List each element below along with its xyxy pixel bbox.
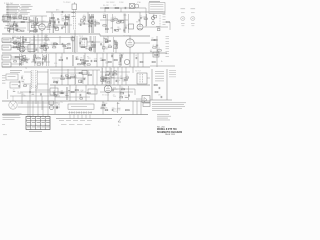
node label-18-17: [19, 17, 23, 19]
node V5-label: [102, 94, 109, 96]
wire: [10, 95, 60, 97]
node value-21-82: [21, 80, 25, 82]
coil Lz30263: [32, 60, 34, 63]
wire: [112, 88, 135, 90]
node VOLUME-label: [54, 63, 57, 65]
wire: [145, 8, 147, 27]
svg-text:47: 47: [88, 46, 90, 48]
wire: [92, 70, 94, 85]
capacitor C23: [160, 96, 163, 98]
node label-65-20: [66, 19, 71, 21]
wire: [4, 27, 26, 29]
svg-text:100K: 100K: [94, 59, 99, 61]
wire: [73, 36, 75, 52]
capacitor Cz9: [53, 21, 56, 23]
svg-text:C12: C12: [124, 95, 127, 97]
capacitor Cz3: [8, 30, 11, 32]
wire: [102, 101, 104, 115]
capacitor Cz20: [113, 29, 116, 31]
node value-118-110: [118, 108, 122, 110]
box T2: [80, 38, 87, 47]
svg-text:R7: R7: [111, 76, 113, 78]
coil Lz51347: [89, 46, 92, 49]
node value-75-59: [75, 57, 78, 59]
node value-40-46: [40, 44, 43, 46]
box part-31-26: [31, 25, 34, 28]
capacitor Cz10: [57, 21, 60, 23]
resistor Rz35: [14, 42, 17, 43]
node V1-label: [39, 21, 46, 23]
node value-56-106: [56, 105, 60, 107]
node label-44-37: [45, 37, 47, 39]
capacitor C13: [90, 60, 93, 62]
node label-87-58: [88, 58, 92, 60]
wire: [113, 37, 115, 52]
svg-text:.001: .001: [52, 45, 55, 47]
node label-68-45: [69, 44, 72, 46]
wire: [45, 26, 56, 28]
coil Lz59425: [100, 59, 103, 62]
svg-text:R7: R7: [15, 14, 17, 16]
resistor Rz40: [40, 47, 44, 48]
box M11: [49, 101, 54, 104]
node label-15-16: [16, 15, 18, 17]
resistor Rz30: [43, 56, 46, 57]
node T2-label: [79, 36, 83, 38]
coil Lz815415: [107, 70, 109, 73]
node value-90-18: [90, 16, 93, 18]
wire: [29, 85, 31, 117]
wire: [110, 68, 112, 84]
node value-102-79: [102, 78, 106, 80]
coil Lz26233: [156, 26, 159, 29]
node value-70-39: [70, 37, 73, 39]
node value-53-93: [53, 91, 55, 93]
svg-text:.02: .02: [61, 91, 63, 93]
resistor R3: [51, 17, 54, 18]
node value-123-30: [123, 28, 125, 30]
node value-67-78: [67, 76, 70, 78]
wire: [21, 54, 23, 66]
node value-105-110: [105, 108, 109, 110]
capacitor C5: [61, 11, 64, 13]
wire: [93, 14, 95, 33]
svg-text:T3: T3: [25, 68, 27, 70]
wire: [50, 69, 100, 71]
node AVC-label: [56, 9, 60, 12]
node value-28-22: [28, 20, 31, 22]
svg-text:330: 330: [117, 27, 120, 29]
wire: [150, 65, 175, 67]
wire: [16, 22, 18, 26]
wire: [30, 15, 47, 17]
node note-small: [169, 70, 176, 77]
svg-text:.02: .02: [151, 38, 153, 40]
svg-text:R4 47K: R4 47K: [103, 5, 110, 7]
svg-text:OSC 262KC: OSC 262KC: [106, 2, 116, 4]
resistor Rz20: [111, 20, 114, 21]
node value-16-42: [16, 40, 20, 42]
node value-144-18: [144, 16, 147, 18]
svg-text:CONV: CONV: [119, 2, 125, 4]
resistor R18: [114, 59, 117, 60]
resistor Rz18: [83, 17, 86, 18]
wire: [87, 12, 89, 20]
wire: [18, 106, 60, 108]
resistor R16: [102, 59, 105, 60]
node value-10-28: [10, 27, 13, 29]
svg-text:2.2M: 2.2M: [56, 105, 60, 107]
jack J1: [152, 17, 155, 25]
svg-text:.001: .001: [100, 106, 103, 108]
wire: [11, 63, 24, 65]
resistor Rz46: [68, 47, 71, 48]
svg-text:330: 330: [105, 73, 108, 75]
capacitor Cz55: [112, 89, 115, 91]
resistor Rz86: [107, 82, 110, 83]
node value-66-78: [66, 76, 70, 78]
resistor R15: [107, 40, 110, 41]
node value-25-39: [25, 37, 27, 39]
wire: [21, 36, 23, 52]
wire: [136, 98, 142, 100]
node value-13-61: [13, 59, 15, 61]
node label-122-81: [123, 81, 126, 83]
wire: [94, 36, 96, 52]
node value-100-108: [100, 106, 103, 108]
node parts-list-line5: [6, 10, 27, 13]
wire: [113, 67, 115, 85]
svg-text:.02: .02: [150, 50, 152, 52]
node title-line3: [165, 133, 175, 136]
tube base diagram V8: [191, 9, 196, 27]
node label-74-77: [74, 77, 77, 79]
coil Lz64463: [22, 81, 24, 84]
node value-43-45: [43, 43, 46, 45]
antenna E1: [2, 16, 5, 20]
node value-110-20: [110, 18, 115, 20]
wire: [88, 14, 90, 33]
capacitor Cz7: [61, 27, 64, 29]
capacitor Cz19: [123, 29, 126, 31]
node value-65-96: [65, 94, 68, 96]
wire: [146, 14, 148, 26]
capacitor Cz29: [32, 58, 35, 60]
wire: [11, 47, 20, 49]
node value-112-73: [112, 72, 115, 74]
capacitor Cz34: [79, 42, 82, 44]
node value-88-48: [88, 46, 90, 48]
node value-105-42: [105, 40, 110, 42]
node value-43-49: [43, 47, 46, 49]
svg-text:.02: .02: [152, 45, 154, 47]
resistor Rz54: [78, 64, 81, 65]
node label-31-43: [31, 43, 33, 45]
resistor Rz56: [81, 63, 84, 64]
box M1: [2, 38, 11, 42]
node title-line2: [157, 131, 182, 134]
capacitor C14: [113, 40, 116, 42]
wire: [52, 77, 86, 79]
resistor Rz13: [89, 26, 92, 27]
node label-105-64: [106, 63, 110, 65]
node value-13-43: [13, 41, 15, 43]
svg-text:.05: .05: [29, 90, 31, 92]
coil L5: [67, 42, 70, 45]
svg-text:.05: .05: [12, 89, 14, 91]
wire: [27, 22, 29, 31]
node value-33-59: [33, 57, 37, 59]
wire: [101, 67, 103, 85]
node value-25-60: [25, 58, 28, 60]
wire: [117, 67, 119, 85]
resistor Rz29: [21, 61, 24, 62]
svg-text:120: 120: [25, 61, 28, 63]
capacitor C15: [119, 60, 122, 62]
box M3: [2, 55, 11, 60]
node label-60-103: [60, 102, 63, 104]
svg-text:5%: 5%: [116, 43, 119, 45]
node value-67-47: [67, 46, 69, 48]
resistor Rz5: [17, 30, 21, 31]
node left-col-text: [2, 75, 6, 83]
resistor Rz57: [114, 47, 118, 48]
node value-74-77: [74, 75, 77, 77]
resistor R14: [87, 64, 90, 65]
resistor Rz28: [24, 60, 27, 61]
svg-text:.005: .005: [118, 62, 121, 64]
resistor Rz32: [42, 58, 46, 59]
wire: [20, 36, 22, 52]
svg-text:47: 47: [113, 95, 115, 97]
resistor Rz23: [105, 28, 108, 29]
svg-text:T4 OUT: T4 OUT: [135, 70, 141, 72]
node value-15-26: [15, 24, 18, 26]
wire: [139, 12, 141, 24]
box part-65-18: [66, 17, 69, 19]
node value-18-44: [18, 42, 20, 44]
node label-50-19: [50, 18, 52, 20]
capacitor Cz32: [43, 44, 46, 46]
wire: [93, 36, 95, 52]
node value-22-96: [22, 94, 24, 96]
wire: [121, 67, 123, 85]
node label-106-49: [106, 49, 108, 51]
wire: [129, 36, 131, 39]
node under-labels-1: [59, 119, 92, 122]
capacitor Cz18: [94, 21, 97, 23]
resistor Rz34: [17, 42, 20, 43]
node rect-label2: [55, 107, 60, 109]
svg-text:6X4: 6X4: [55, 103, 58, 105]
svg-text:47: 47: [44, 42, 46, 44]
resistor Rz39: [45, 47, 48, 48]
wire: [9, 23, 11, 33]
node value-61-28: [61, 26, 64, 28]
wire: [37, 71, 48, 73]
svg-text:1K: 1K: [102, 45, 104, 47]
svg-text:5%: 5%: [60, 102, 63, 104]
coil L4: [72, 15, 75, 18]
node value-61-76: [61, 74, 63, 76]
node value-124-81: [124, 79, 128, 81]
node value-100-60: [100, 58, 104, 60]
capacitor C9: [19, 63, 22, 65]
wire: [104, 8, 106, 12]
capacitor Cz44: [39, 93, 42, 95]
node R7-label: [12, 40, 18, 42]
node value-16-38: [16, 36, 18, 38]
wire: [69, 14, 71, 33]
capacitor Cz13: [83, 19, 86, 21]
capacitor Cz30: [11, 37, 14, 39]
tube V2 6BA6: [19, 46, 25, 52]
svg-text:47: 47: [13, 45, 15, 47]
svg-text:.05: .05: [56, 80, 58, 82]
node list-block: [157, 114, 171, 120]
svg-text:150: 150: [61, 17, 64, 19]
svg-text:.01: .01: [13, 59, 15, 61]
box part-55-28: [55, 27, 58, 30]
loop antenna LA1: [3, 15, 12, 22]
wire: [12, 58, 30, 60]
wire: [46, 11, 165, 13]
node value-88-26: [88, 24, 92, 26]
svg-text:.01: .01: [75, 88, 77, 90]
node value-25-63: [25, 61, 28, 63]
node rect-label: [55, 103, 58, 105]
wire: [67, 87, 69, 100]
capacitor Cz36: [75, 58, 78, 60]
wire: [78, 23, 100, 25]
svg-text:T2 IF: T2 IF: [79, 36, 83, 38]
node value-59-93: [59, 91, 62, 93]
node value-105-64: [105, 62, 108, 64]
node label-40-46: [41, 46, 44, 48]
node value-111-56: [111, 54, 114, 56]
resistor R10: [54, 43, 58, 44]
svg-text:47K: 47K: [113, 87, 116, 89]
svg-text:470K: 470K: [80, 90, 83, 92]
node value-58-22: [58, 20, 61, 22]
resistor Rz85: [124, 79, 127, 80]
wire: [147, 77, 150, 79]
coil L3: [72, 11, 75, 14]
svg-text:.01: .01: [62, 44, 64, 46]
node value-122-81: [122, 80, 127, 82]
wire: [67, 14, 69, 33]
node value-102-47: [102, 45, 104, 47]
node value-124-79: [124, 77, 127, 79]
resistor Rz17: [90, 16, 94, 17]
node value-106-49: [106, 47, 109, 49]
node value-17-48: [17, 46, 19, 48]
svg-text:150: 150: [111, 54, 114, 56]
node Bplus-label: [161, 61, 163, 63]
node value-21-60: [21, 58, 23, 60]
wire: [33, 34, 35, 53]
wire: [166, 69, 168, 100]
node pin-row-1: [69, 112, 92, 113]
node value-153-16: [153, 14, 156, 16]
svg-text:120: 120: [119, 95, 122, 97]
coil Lz1036: [29, 21, 32, 24]
node value-116-22: [116, 20, 119, 22]
svg-text:.02: .02: [34, 60, 36, 62]
node value-118-64: [118, 62, 121, 64]
coil Lz932: [31, 19, 33, 22]
wire: [136, 7, 146, 9]
wire: [89, 14, 91, 33]
node label-80-92: [81, 91, 83, 93]
svg-text:220K: 220K: [80, 79, 85, 81]
wire: [120, 8, 122, 12]
box part-64-24: [65, 23, 68, 25]
resistor Rz62: [158, 50, 162, 51]
node value-105-81: [105, 79, 107, 81]
wire: [84, 53, 86, 67]
resistor Rz19: [119, 21, 122, 22]
capacitor Cz16: [94, 24, 97, 26]
resistor Rz80: [126, 77, 129, 78]
node value-151-40: [151, 38, 153, 40]
wire: [53, 14, 55, 33]
resistor R23: [71, 91, 74, 92]
node value-157-29: [157, 27, 161, 29]
resistor Rz41: [41, 45, 45, 46]
svg-text:V4: V4: [136, 21, 138, 23]
svg-text:.001: .001: [108, 44, 111, 46]
node value-121-89: [121, 87, 124, 89]
wire: [107, 93, 109, 101]
node value-80-59: [80, 58, 84, 60]
svg-text:120: 120: [112, 108, 115, 110]
box powercord: [68, 104, 94, 109]
capacitor C16: [156, 45, 158, 46]
capacitor C2: [16, 25, 19, 27]
node value-125-77: [125, 75, 128, 77]
box part-23-18: [24, 17, 27, 20]
node value-45-47: [45, 45, 47, 47]
node parts-list-line6: [6, 11, 30, 14]
node value-16-30: [16, 28, 19, 30]
box IF-T5: [129, 24, 134, 29]
wire: [12, 46, 28, 48]
svg-text:.01: .01: [21, 75, 23, 77]
wire: [119, 85, 121, 101]
resistor Rz33: [16, 46, 19, 47]
resistor R6: [166, 21, 169, 22]
node value-64-48: [64, 46, 67, 48]
node value-13-47: [13, 45, 15, 47]
resistor R5: [115, 7, 119, 8]
node value-125-27: [125, 25, 128, 27]
node value-123-15: [123, 13, 126, 15]
wire: [127, 86, 129, 100]
wire: [22, 36, 24, 52]
wire: [143, 26, 150, 28]
box part-7-29: [7, 29, 9, 31]
wire: [83, 55, 85, 66]
wire: [74, 74, 76, 84]
capacitor Cz39: [116, 44, 119, 46]
coil Lz12112: [64, 15, 67, 18]
wire: [137, 53, 139, 67]
node value-61-92: [61, 91, 63, 93]
resistor R24: [87, 92, 90, 93]
node value-53-82: [53, 80, 56, 82]
resistor Rz83: [121, 89, 124, 90]
